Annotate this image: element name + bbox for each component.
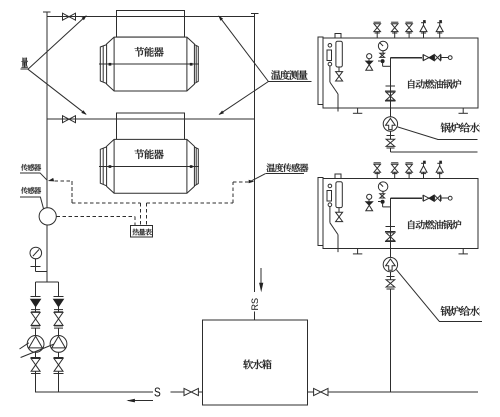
boiler U1 top gate valve at x=377.2 (374, 22, 381, 38)
wire: U2 pump leader underline (439, 320, 482, 322)
wire: U2 feed drop line (389, 198, 391, 257)
wire: condensate return pipe S left (35, 391, 153, 393)
boiler U2 safety valve at x=439.7 (436, 161, 443, 179)
valve V-mid on middle pipe (63, 116, 76, 123)
flange tick below gate valve A2 (31, 373, 41, 375)
wire: U1 gauge stem (382, 51, 384, 54)
wire: tank outlet stub (308, 391, 314, 393)
boiler U1 level gauge glass (336, 41, 342, 67)
wire: dashed signal from upper sensor tap (55, 180, 73, 182)
label: tank text 软水箱 (243, 360, 271, 370)
wire: dashed signal from sensor circle (56, 215, 134, 217)
wire: U1 feed line horizontal (390, 151, 477, 153)
node: U2 gauge junction dot (381, 200, 384, 203)
flange ticks above gate valve A1 (31, 310, 40, 312)
wire: U2 steam outlet line (390, 197, 422, 199)
wire: gauge stem tick (31, 265, 41, 267)
feed valve U2 lower (386, 280, 395, 287)
label: economizer E2 text 节能器 (135, 149, 164, 159)
wire: U2 glass to blowdown valve (338, 208, 340, 213)
wire: main supply riser pipe (46, 12, 48, 282)
boiler U2 gauge cock lower (328, 203, 332, 207)
boiler U2 blowdown valve (336, 212, 343, 221)
label: flow measurement 量 (21, 57, 27, 67)
wire: dashed signal drop (71, 181, 73, 203)
boiler U1 shell (323, 38, 478, 108)
wire: U1 steam outlet line (390, 57, 422, 59)
wire: branch B stub (58, 307, 60, 313)
flange tick U2 feed above valve (385, 230, 395, 232)
wire: dashed signal to downcomer probe (233, 181, 249, 183)
feed valve U1 lower (386, 139, 395, 146)
valve at tank inlet (184, 388, 198, 395)
label: heat meter text 热量表 (132, 229, 151, 236)
wire: U2 valve group flange tick (422, 195, 424, 201)
boiler U2 sampling valve body (366, 202, 373, 211)
flange tick U2 feed upper (386, 226, 395, 228)
wire: branch B drop (58, 282, 60, 296)
arrow tip at middle pipe (81, 110, 86, 115)
boiler U2 pressure gauge dial (378, 182, 388, 192)
svg-text:RS: RS (250, 298, 260, 311)
boiler U2 sampling valve handle (367, 194, 372, 199)
wire: downcomer top cap tick (251, 13, 258, 15)
boiler U2 level gauge glass (336, 182, 342, 208)
tank 软水箱 box (203, 320, 308, 405)
check valve branch A (31, 299, 41, 306)
wire: middle supply pipe (47, 118, 255, 120)
wire: dashed signal rise to temperature probe (232, 182, 234, 203)
economizer E2 right flange (194, 147, 198, 186)
arrow tip on middle pipe (219, 111, 225, 116)
economizer E2 top cap (116, 113, 184, 139)
wire: 量 leader to top header (28, 16, 86, 69)
wire: branch A stub (35, 307, 37, 313)
wire: gauge stem (35, 259, 37, 272)
boiler U2 gauge column (327, 190, 331, 201)
economizer E1 top cap (116, 11, 184, 37)
wire: 温度测量 leader to middle pipe (219, 82, 268, 115)
stop valve U2 filled disc (429, 195, 434, 201)
valve at tank outlet (314, 388, 328, 395)
boiler U1 safety valve at x=439.7 (436, 20, 443, 38)
check valve U1 (435, 55, 441, 61)
wire: upper 传感器 leader (40, 173, 47, 180)
boiler U1 gauge cock valve (380, 53, 385, 57)
wire: 温度传感器 leader (252, 174, 266, 181)
label: boiler U1 text 自动燃油锅炉 (408, 79, 461, 88)
arrow tip at downcomer probe (249, 180, 255, 184)
wire: branch A to bottom header (35, 371, 37, 392)
wire: 量 label underline (20, 68, 28, 70)
wire: dashed drop from sensor line to heat meter (134, 216, 136, 225)
sensor well circle on riser (39, 208, 56, 225)
wire: return downcomer pipe upper (254, 14, 256, 293)
wire: U2 junction tick (378, 201, 380, 203)
wire: U2 pump leader diagonal (396, 270, 439, 322)
flange tick U1 below pump (386, 135, 394, 137)
boiler U2 gauge top box (335, 174, 341, 178)
economizer E2 tube sheet lines (114, 139, 187, 193)
flange ticks below gate valve B1 (54, 326, 63, 328)
wire: stub below pump B (58, 352, 60, 358)
wire: U2 blowdown pipe (330, 207, 338, 253)
gate valve A1 (31, 312, 40, 325)
wire: U1 gauge connection elbow (383, 63, 391, 67)
wire: top supply header pipe (47, 16, 255, 18)
economizer E1 centerline (99, 63, 199, 65)
wire: dashed drop 2 from bus to heat meter (145, 203, 147, 225)
node: economizer E1 left connection dot (109, 63, 112, 66)
boiler U2 top gate valve at x=377.2 (374, 163, 381, 179)
wire: condensate return pipe after S (171, 391, 185, 393)
label: sensor 传感器 lower (21, 187, 41, 194)
flange tick branch A (31, 295, 41, 297)
flange tick U1 feed upper (386, 85, 395, 87)
wire: branch A drop (35, 282, 37, 296)
wire: upper 传感器 underline (20, 172, 40, 174)
flange ticks below gate valve A1 (31, 326, 40, 328)
wire: U2 stub to instrument (441, 197, 448, 199)
heat meter box 热量表 (131, 225, 153, 236)
node: U1 gauge junction dot (381, 60, 384, 63)
feed pump U1 arrow symbol (386, 118, 396, 129)
wire: branch B to bottom header (58, 371, 60, 392)
node: economizer E2 right connection dot (190, 165, 193, 168)
label: sensor 传感器 upper (21, 164, 41, 171)
stop valve U1 filled disc (429, 55, 434, 61)
economizer E1 tube sheet lines (114, 37, 187, 91)
stop valve U1 open disc (423, 55, 429, 61)
boiler U2 pressure gauge needle (380, 183, 384, 187)
flange tick U1 below valve (385, 100, 395, 102)
instrument circle U2 (448, 196, 452, 200)
pressure gauge PG1 needle (33, 250, 39, 257)
wire: stub to pump B (58, 328, 60, 335)
arrow tip at riser for upper sensor (48, 178, 54, 182)
wire: downcomer into tank (254, 312, 256, 336)
flange ticks above gate valve B1 (54, 310, 63, 312)
wire: U1 feed line elbow down (389, 148, 391, 152)
flange tick U1 feed above valve (385, 90, 395, 92)
boiler U1 pressure gauge needle (380, 43, 384, 47)
economizer E2 centerline (99, 166, 199, 168)
label: economizer E1 text 节能器 (135, 47, 164, 57)
node: economizer E2 left connection dot (109, 165, 112, 168)
boiler U1 gauge column (327, 50, 331, 61)
feed pump U1 circle (383, 117, 397, 131)
wire: stub to pump A (35, 328, 37, 335)
boiler U1 rear end cap (318, 37, 323, 105)
economizer E1 body (107, 37, 195, 91)
boiler U1 gauge cock lower (328, 62, 332, 66)
boiler U1 top gate valve at x=394.7 (391, 22, 398, 38)
valve V-top on supply header (63, 13, 76, 20)
wire: U1 pump leader underline (438, 138, 478, 140)
flange tick branch B (54, 295, 64, 297)
flange tick above gate valve B2 (54, 356, 64, 358)
boiler U1 support at x=463.2 (459, 108, 468, 113)
gate valve B2 (54, 359, 63, 372)
flange tick below gate valve B2 (54, 373, 64, 375)
instrument circle U1 (448, 56, 452, 60)
label: U2 pump text 锅炉给水泵 (441, 306, 489, 316)
wire: stub to tank (198, 391, 202, 393)
wire: U1 stub to instrument (441, 57, 448, 59)
economizer E2 body (107, 139, 195, 193)
arrow tip at top header (82, 15, 87, 20)
wire: U1 glass to blowdown valve (338, 67, 340, 72)
flow arrow on downcomer (260, 268, 262, 284)
wire: dashed signal bus right segment (146, 202, 233, 204)
economizer E1 right flange (194, 45, 198, 84)
gate valve B1 (54, 312, 63, 325)
feed pump U2 arrow symbol (386, 259, 396, 270)
economizer E2 left flange (100, 147, 106, 186)
wire: standby leader to pump A (20, 343, 29, 349)
boiler U2 support at x=463.2 (459, 249, 468, 254)
boiler U2 gauge cock valve (380, 194, 385, 198)
flow arrow to S (128, 400, 153, 402)
wire: feed suction pipe to boilers (328, 391, 478, 393)
flange tick above gate valve A2 (31, 356, 41, 358)
flange tick U2 below pump (386, 275, 394, 277)
wire: U2 valve group tick 2 (440, 195, 442, 201)
boiler U2 support at x=357.6 (353, 249, 362, 254)
wire: U1 valve group flange tick (422, 55, 424, 61)
wire: U2 sampling valve stem (368, 199, 370, 201)
node: economizer E1 right connection dot (190, 63, 193, 66)
pressure gauge PG1 dial (30, 247, 42, 259)
flange tick U1 feed bottom (386, 147, 394, 149)
economizer E1 left flange (100, 45, 106, 84)
wire: 温度传感器 underline (265, 173, 304, 175)
wire: U2 gauge connection elbow (383, 203, 391, 207)
wire: 温度测量 leader to top header (219, 16, 268, 81)
feed valve U1 upper (386, 92, 395, 100)
wire: U1 feed drop line (389, 58, 391, 117)
label: 温度测量 text (271, 70, 308, 80)
wire: U2 feed line down to suction pipe (389, 289, 391, 392)
wire: stub below pump A (35, 352, 37, 358)
wire: U1 sampling valve stem (368, 59, 370, 61)
wire: U1 valve group tick 2 (440, 55, 442, 61)
wire: U1 blowdown pipe (330, 66, 338, 112)
check valve U2 (435, 195, 441, 201)
boiler U1 top gate valve at x=409.1 (406, 22, 413, 38)
boiler U1 gauge cock upper (328, 44, 332, 48)
wire: dashed drop 1 from bus to heat meter (139, 203, 141, 225)
feed valve U2 upper (386, 233, 395, 241)
wire: pump suction header (36, 281, 59, 283)
boiler U2 top gate valve at x=409.1 (406, 163, 413, 179)
wire: 温度测量 underline (268, 81, 311, 83)
boiler U1 pressure gauge dial (378, 41, 388, 51)
feed pump U2 circle (383, 257, 397, 271)
flange tick U2 feed bottom (386, 288, 394, 290)
wire: U1 junction tick (378, 60, 380, 62)
label: boiler U2 text 自动燃油锅炉 (408, 220, 461, 229)
pump A impeller triangle (29, 336, 43, 348)
flange tick U2 below valve (385, 240, 395, 242)
label: U1 pump text 锅炉给水泵 (441, 123, 489, 133)
pump B impeller triangle (52, 336, 66, 348)
wire: U2 below pump stub (389, 272, 391, 280)
boiler U2 gauge cock upper (328, 184, 332, 188)
gate valve A2 (31, 359, 40, 372)
boiler U1 gauge top box (335, 34, 341, 38)
wire: lower 传感器 underline (20, 196, 40, 198)
check valve branch B (54, 299, 64, 306)
pump A circle (27, 336, 44, 353)
boiler U1 sampling valve body (366, 61, 373, 70)
boiler U1 sampling valve handle (367, 54, 372, 59)
boiler U1 support at x=357.6 (353, 108, 362, 113)
arrow tip on top header (218, 15, 223, 20)
boiler U2 top gate valve at x=394.7 (391, 163, 398, 179)
boiler U1 blowdown valve (336, 72, 343, 81)
wire: 量 leader to middle pipe (28, 69, 86, 114)
stop valve U2 open disc (423, 195, 429, 201)
wire: U1 below pump stub (389, 131, 391, 139)
label: 温度传感器 text (267, 163, 309, 172)
wire: gauge connection elbow (36, 270, 47, 272)
boiler U1 safety valve at x=423.5 (420, 20, 427, 38)
wire: standby leader to pump B (21, 344, 54, 357)
wire: U2 gauge stem (382, 191, 384, 194)
wire: lower 传感器 leader (40, 197, 44, 210)
wire: riser top cap tick (43, 11, 51, 13)
pump B circle (50, 336, 67, 353)
wire: dashed signal bus left segment (72, 202, 140, 204)
wire: U1 pump leader diagonal (398, 127, 438, 139)
boiler U2 shell (323, 179, 478, 249)
boiler U2 rear end cap (318, 178, 323, 246)
svg-text:S: S (154, 385, 161, 399)
boiler U2 safety valve at x=423.5 (420, 161, 427, 179)
